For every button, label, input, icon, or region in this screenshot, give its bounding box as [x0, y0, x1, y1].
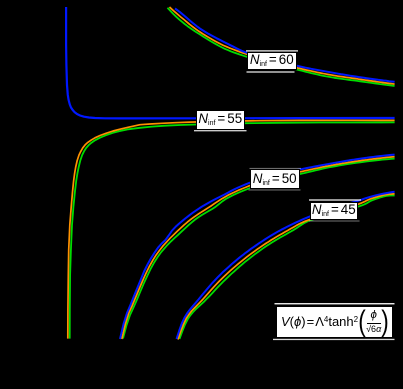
halo line above N=50 label	[250, 168, 302, 169]
halo line below N=55 label	[194, 130, 247, 131]
curve N=50 blue	[120, 155, 395, 339]
halo line below N=60 label	[247, 71, 295, 72]
curve N=50 green	[123, 159, 395, 339]
curve N=45 orange	[178, 194, 395, 340]
halo line above N=45 label	[309, 199, 361, 200]
curve N=45 blue	[177, 192, 395, 339]
halo line below N=50 label	[249, 189, 301, 190]
curve N=60 green (alpha 3)	[168, 8, 395, 86]
curve N=60 orange (alpha 2)	[170, 7, 395, 84]
curve N=45 green	[180, 195, 395, 339]
curve N=55 green attractor branch	[70, 122, 395, 338]
curve N=60 blue (alpha 1)	[175, 9, 395, 82]
curve N=50 orange	[122, 157, 395, 339]
formula box V(phi)=Lambda^4 tanh^2(phi/sqrt(6 alpha))	[276, 306, 393, 338]
halo line above N=60 label	[246, 50, 298, 51]
halo line below N=45 label	[309, 221, 360, 222]
curve N=55 blue attractor branch	[66, 7, 395, 118]
label box N_inf = 55	[196, 110, 245, 130]
halo line below potential formula box	[273, 339, 395, 340]
label box N_inf = 45	[310, 202, 358, 220]
curve N=55 orange attractor branch	[68, 120, 395, 338]
label box N_inf = 60	[247, 52, 297, 69]
label box N_inf = 50	[250, 169, 300, 189]
halo line above potential formula box	[275, 303, 395, 304]
